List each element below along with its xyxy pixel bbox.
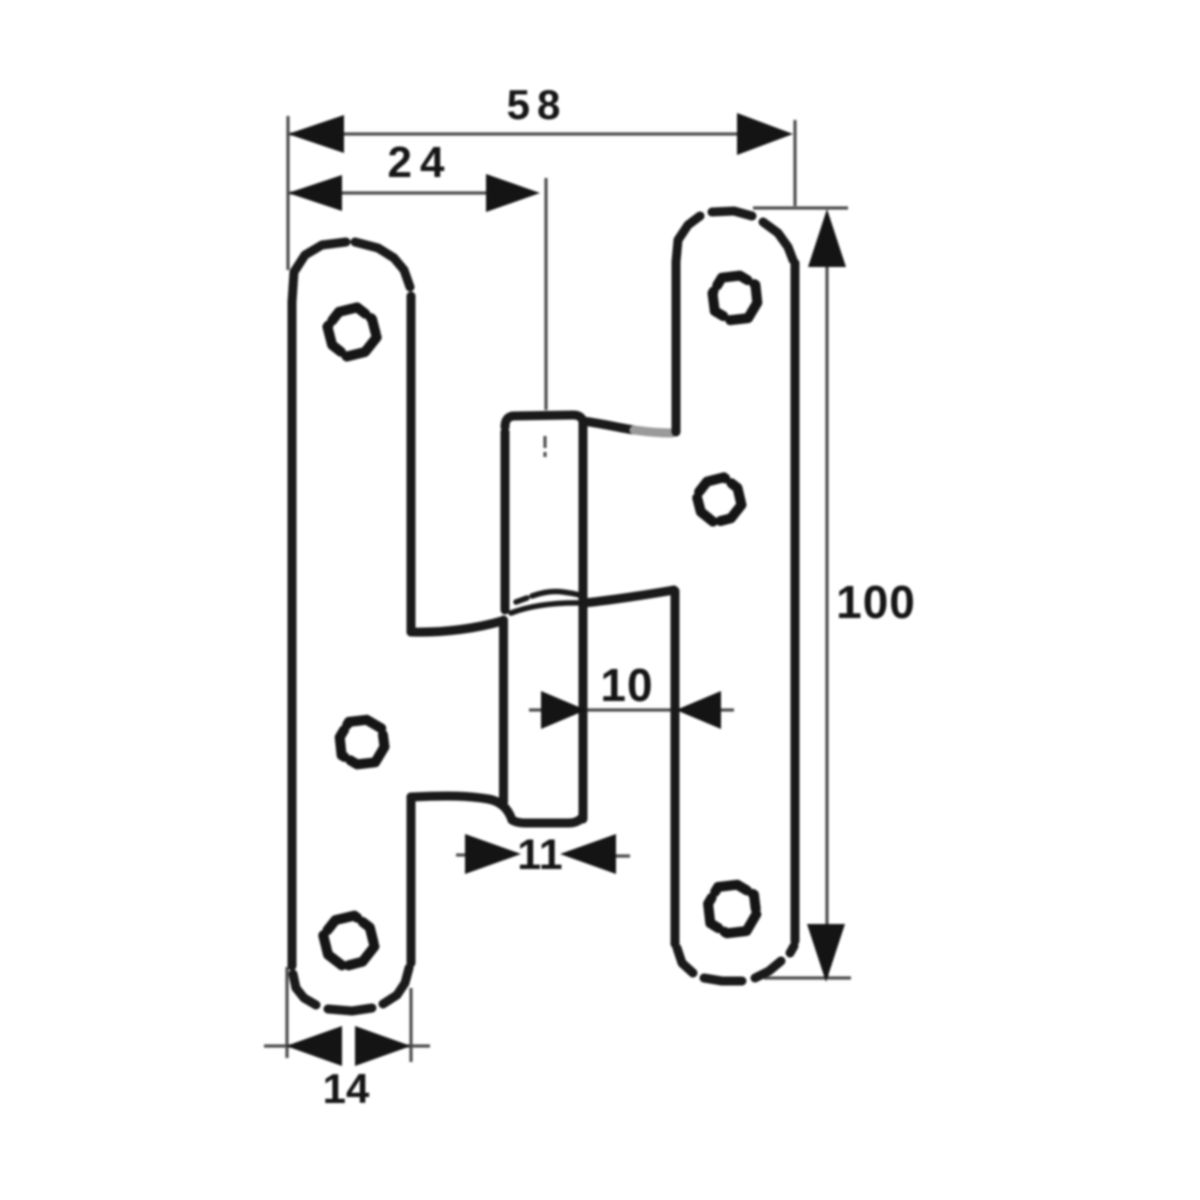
arrow 14 right-pointing <box>355 1026 411 1066</box>
arrow 58 left <box>288 115 344 153</box>
neck bottom edge to right leaf <box>583 590 674 603</box>
dimension labels <box>323 81 916 1112</box>
arrow 11 left-pointing <box>560 834 616 874</box>
arrowheads <box>286 113 846 1066</box>
neck top edge to right leaf <box>583 421 634 430</box>
100 top extension <box>753 206 848 209</box>
dim 100 line <box>825 214 828 978</box>
svg-text:10: 10 <box>600 659 653 711</box>
left leaf right edge lower <box>407 797 416 963</box>
right leaf right edge <box>791 263 800 941</box>
hole right top <box>713 276 758 321</box>
11 stubs <box>456 853 470 856</box>
hole left top <box>327 307 376 356</box>
dim 24 line <box>290 191 532 194</box>
14 extension left <box>285 967 288 1058</box>
arrow 10 right-pointing <box>541 691 586 729</box>
dim 58 line <box>290 132 788 135</box>
right leaf bottom arc <box>677 948 693 973</box>
arrow 14 left-pointing <box>286 1026 342 1066</box>
left leaf right edge upper <box>407 296 416 632</box>
knuckle left edge upper <box>501 432 510 610</box>
knuckle right edge <box>579 426 588 819</box>
knuckle joint break lines <box>511 592 583 614</box>
svg-text:14: 14 <box>323 1065 370 1112</box>
left leaf left edge <box>288 302 297 966</box>
hole right middle <box>697 477 742 522</box>
100 bottom extension <box>764 976 851 979</box>
14 extension right <box>409 988 412 1062</box>
thin dimension lines <box>264 116 851 1062</box>
arrow 10 left-pointing <box>676 691 721 729</box>
hole left bottom <box>323 916 374 967</box>
arrow 58 right <box>737 113 793 155</box>
dim 10 line <box>529 708 734 711</box>
svg-text:100: 100 <box>836 576 916 628</box>
left leaf top arc <box>292 242 346 302</box>
arrow 100 top <box>808 209 846 267</box>
arrow 24 right <box>486 174 540 212</box>
arrow 24 left <box>288 175 342 211</box>
right extension (58) <box>793 120 796 206</box>
svg-text:58: 58 <box>507 81 568 128</box>
left leaf arm lower edge <box>411 796 512 820</box>
arrow 100 bottom <box>807 924 845 982</box>
right leaf top arc <box>676 216 700 262</box>
left leaf step to knuckle <box>411 621 502 632</box>
neck top edge faded part <box>634 430 672 433</box>
left leaf bottom arc <box>293 974 316 1005</box>
screw holes <box>323 276 757 967</box>
arrow 11 right-pointing <box>465 834 521 874</box>
24 right extension down to pivot <box>544 178 547 410</box>
svg-text:11: 11 <box>517 831 562 879</box>
hole right bottom <box>708 885 756 934</box>
svg-text:24: 24 <box>388 138 453 187</box>
knuckle top edge <box>505 415 583 429</box>
left extension line <box>286 116 289 270</box>
right leaf left edge lower <box>671 591 680 944</box>
14 stubs <box>264 1044 292 1047</box>
hole left middle <box>340 720 385 765</box>
right leaf left edge upper <box>672 263 681 432</box>
knuckle bottom edge <box>512 816 583 823</box>
knuckle left edge lower <box>499 620 508 802</box>
